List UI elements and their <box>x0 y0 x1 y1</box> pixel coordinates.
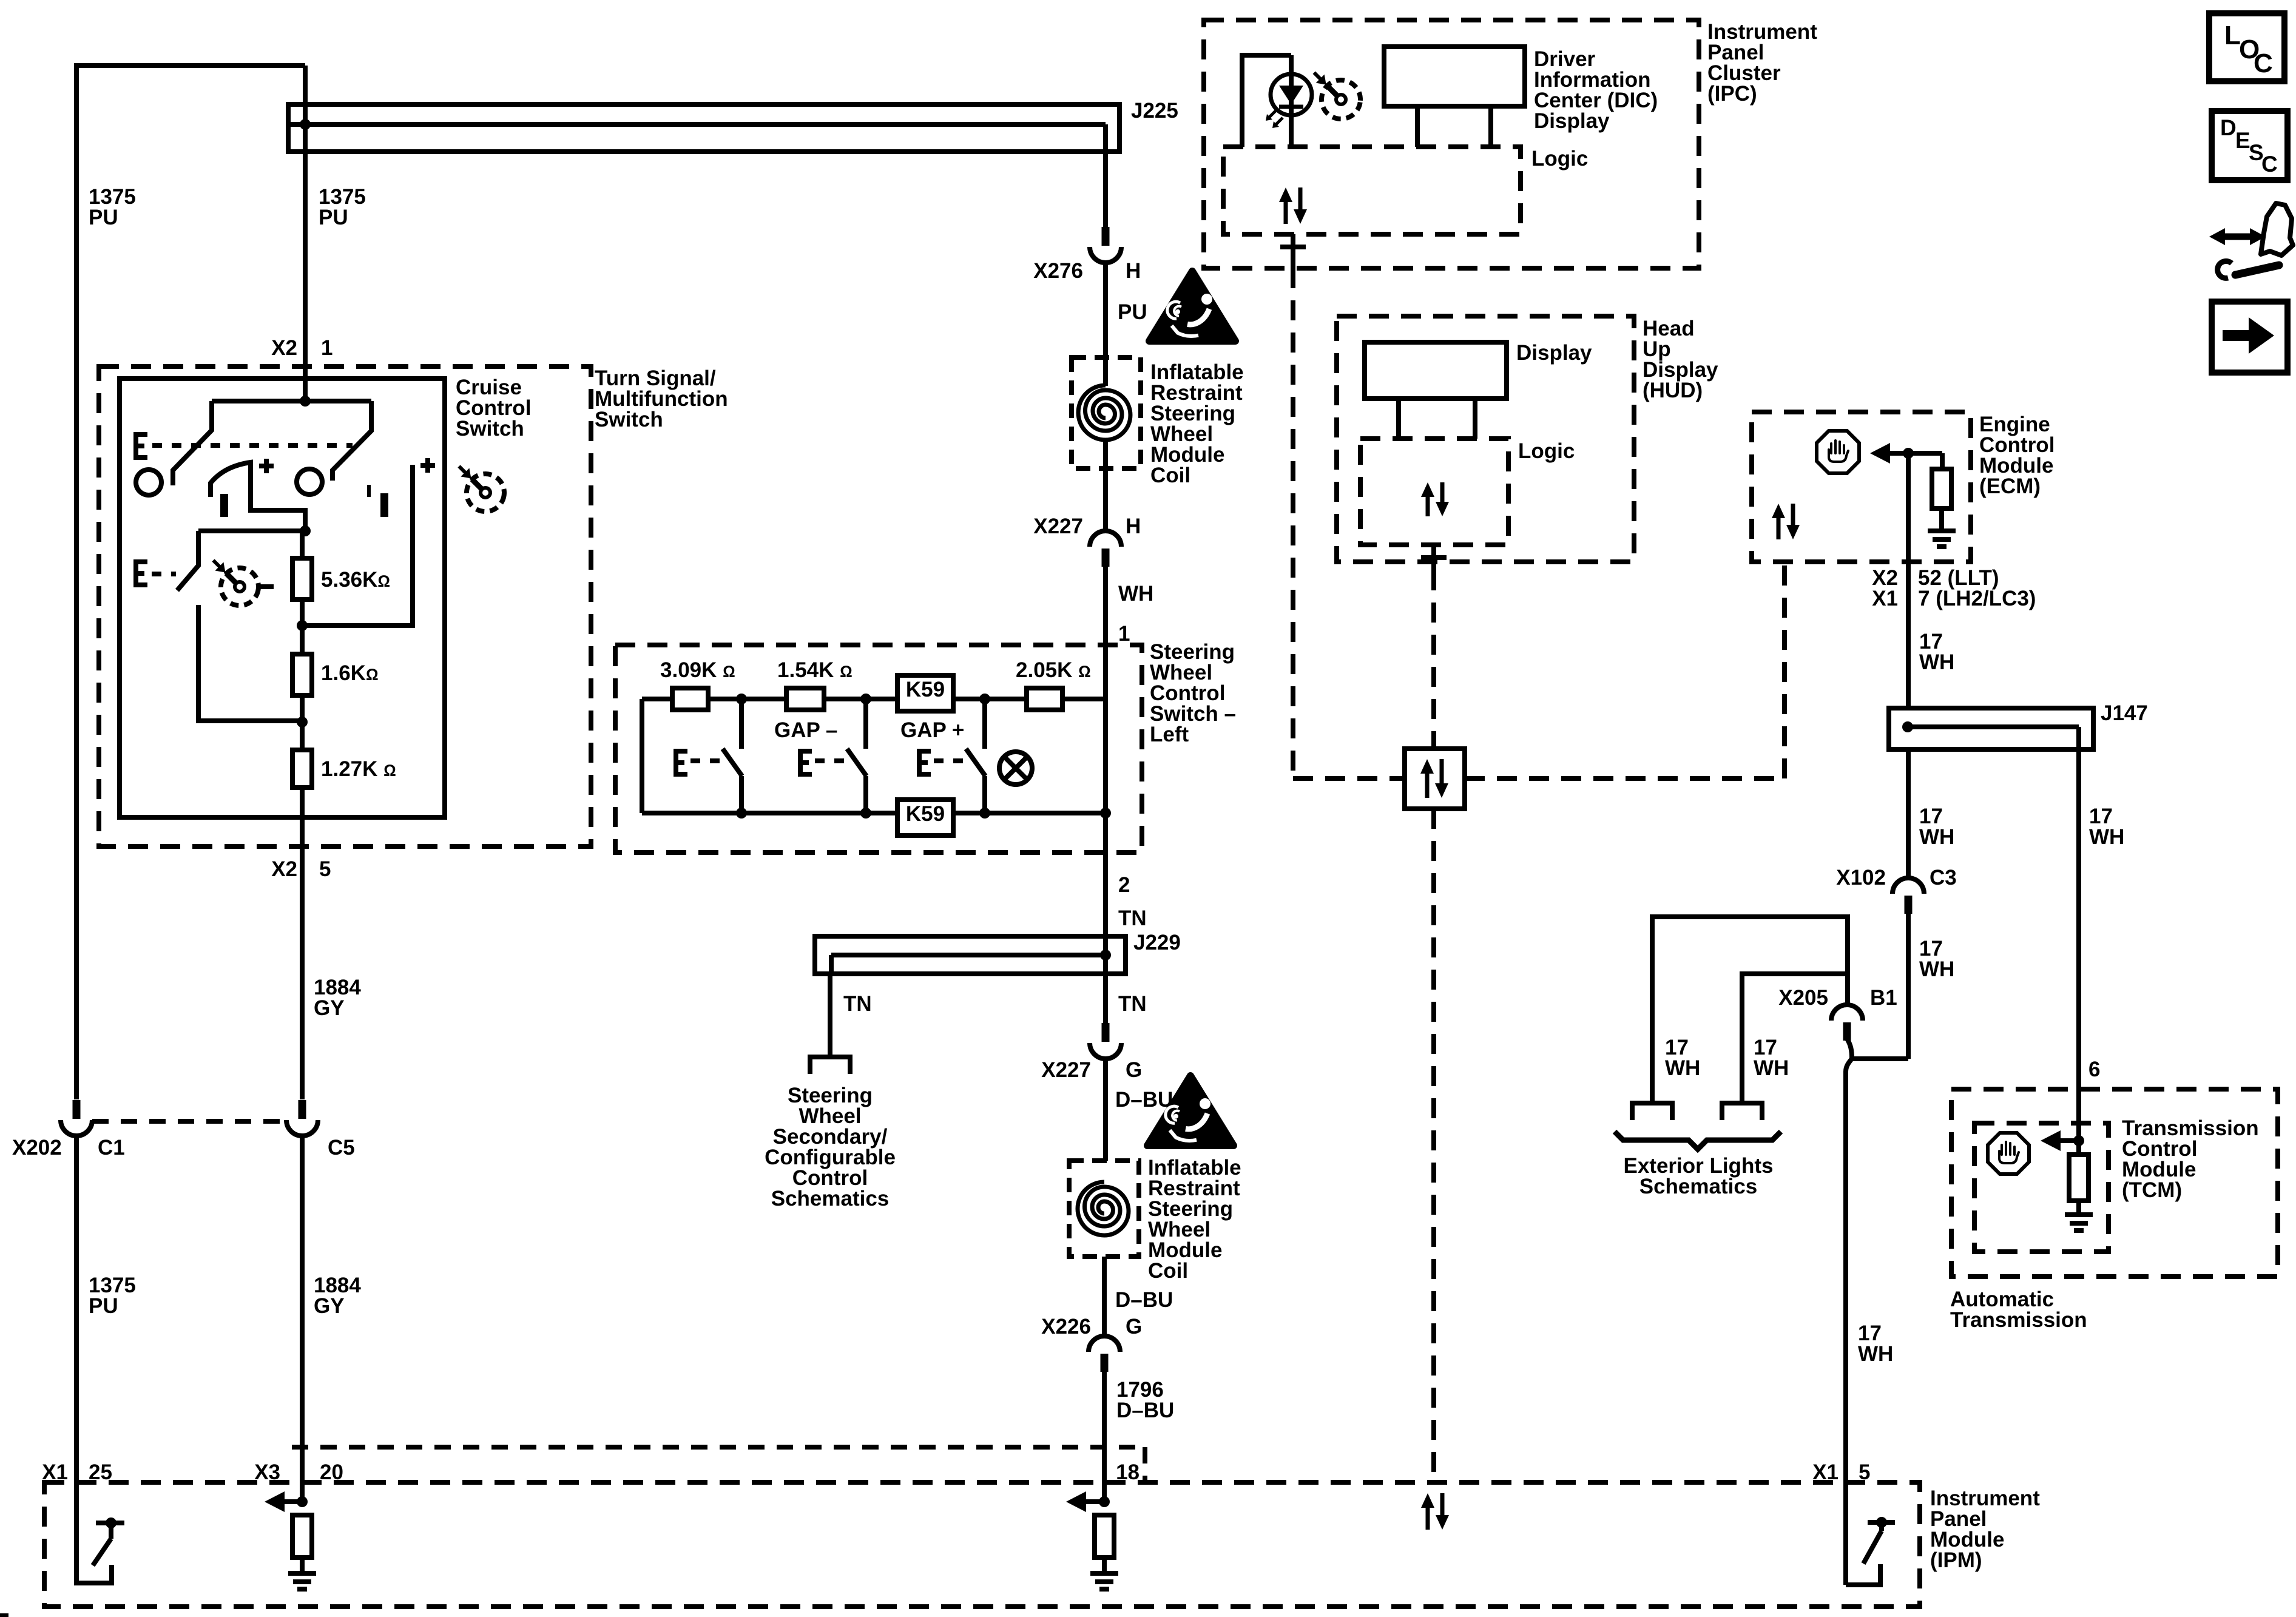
svg-text:TN: TN <box>1118 992 1147 1016</box>
row wire <box>824 697 897 701</box>
label Logic (HUD) <box>1518 439 1575 463</box>
label J225 <box>1131 99 1178 123</box>
svg-text:Left: Left <box>1150 723 1189 746</box>
TCM pull-down resistor <box>2069 1141 2088 1215</box>
label 20 <box>320 1460 343 1484</box>
swcs switch 2 E dashes <box>815 758 844 763</box>
label 1884 GY (upper) <box>314 976 361 1020</box>
svg-text:WH: WH <box>1118 582 1153 606</box>
icon LOC box <box>2209 13 2284 81</box>
label GAP + <box>900 718 964 742</box>
wire D-BU <box>1103 1059 1108 1161</box>
cruise right switch contact circle <box>297 469 322 495</box>
svg-text:1: 1 <box>321 336 333 360</box>
wire to exterior lights 1 <box>1652 917 1848 1103</box>
dashed box TCM <box>1974 1123 2109 1252</box>
label Inflatable Restraint Steering Wheel Module Coil (lower) <box>1148 1156 1241 1283</box>
dashed box automatic transmission <box>1951 1089 2278 1277</box>
label G <box>1126 1058 1142 1082</box>
cruise tick bar (left) <box>220 494 228 517</box>
junction dot TCM <box>2073 1135 2084 1146</box>
svg-text:D: D <box>2220 115 2237 140</box>
label X1 (25) <box>42 1460 68 1484</box>
cruise left switch (on/off) blade <box>173 401 212 485</box>
junction dots bottom <box>736 808 1111 819</box>
svg-text:J147: J147 <box>2101 701 2148 725</box>
swcs switch 2 <box>847 699 866 813</box>
svg-text:X102: X102 <box>1836 866 1886 890</box>
svg-text:J225: J225 <box>1131 99 1178 123</box>
wire 17 WH from ECM <box>1906 453 1911 707</box>
label 17 WH (ext 2) <box>1754 1036 1789 1080</box>
serial data dashed line from IPC <box>1291 268 1295 778</box>
wire X2-1 vertical into cruise switch <box>303 66 308 401</box>
label X227 <box>1033 515 1083 538</box>
IPM resistor (1796) <box>1095 1515 1114 1573</box>
IPM resistor (1884 GY) <box>292 1515 312 1573</box>
dashed box instrument panel module <box>44 1482 1920 1607</box>
svg-text:C: C <box>2261 152 2278 177</box>
resistor 3.09K <box>672 688 708 710</box>
cruise switch E symbol (upper) <box>136 434 147 457</box>
dashed box IPC logic <box>1223 147 1521 234</box>
label Transmission Control Module (TCM) <box>2122 1116 2259 1202</box>
cruise bottom internal wire <box>198 528 305 533</box>
junction dot IPM switch left <box>106 1517 116 1528</box>
label 17 WH (right branch) <box>2089 805 2124 849</box>
label TN (left leg) <box>843 992 872 1016</box>
label C3 <box>1930 866 1957 890</box>
label Cruise Control Switch <box>456 376 531 441</box>
swcs switch 3 E dashes <box>934 758 963 763</box>
HUD serial stub <box>1421 545 1447 570</box>
svg-text:X227: X227 <box>1041 1058 1091 1082</box>
page edge mark <box>0 1613 8 1617</box>
svg-text:GY: GY <box>314 1294 345 1318</box>
svg-text:X276: X276 <box>1033 259 1083 283</box>
resistor 2.05K <box>1027 688 1062 710</box>
junction dot row 3 <box>979 694 990 704</box>
lamp symbol <box>999 752 1032 785</box>
relay box K59 (top) <box>897 675 953 711</box>
svg-text:(IPM): (IPM) <box>1930 1548 1982 1572</box>
label 17 WH (to IPM) <box>1858 1322 1893 1366</box>
junction dot J229 <box>1100 950 1111 960</box>
label Inflatable Restraint Steering Wheel Module Coil (upper) <box>1150 360 1244 487</box>
swcs bottom wire right <box>953 811 1106 815</box>
label X202 <box>12 1136 62 1160</box>
wire label 1375 PU (top left) <box>89 185 136 229</box>
label J147 <box>2101 701 2148 725</box>
label D-BU (lower) <box>1115 1288 1173 1312</box>
wire PU to X227 <box>1103 440 1108 531</box>
svg-text:X1: X1 <box>1872 587 1898 610</box>
connector X102 C3 <box>1893 878 1924 914</box>
svg-text:Transmission: Transmission <box>1950 1308 2087 1332</box>
svg-text:X205: X205 <box>1778 986 1828 1010</box>
connector X202 C5 <box>286 1100 318 1136</box>
swcs switch 1 <box>723 699 742 813</box>
cruise switch E dashed line (upper) <box>152 443 353 448</box>
junction dot below 5.36K <box>297 620 308 631</box>
label 17 WH (ext 1) <box>1665 1036 1700 1080</box>
ECM pull-up resistor <box>1932 453 1951 531</box>
svg-text:X226: X226 <box>1041 1315 1091 1338</box>
svg-text:WH: WH <box>1858 1342 1893 1366</box>
swcs output wire right side <box>1103 699 1108 955</box>
connector X205 B1 <box>1831 1005 1863 1041</box>
wire 1884 GY to IPM <box>300 1136 305 1502</box>
label Driver Information Center (DIC) Display <box>1534 47 1658 133</box>
label 17 WH (left branch) <box>1919 805 1954 849</box>
svg-text:WH: WH <box>1919 957 1954 981</box>
dashed box steering wheel control switch - left <box>615 645 1142 852</box>
cruise tick marks (right) <box>367 485 388 517</box>
svg-text:GAP +: GAP + <box>900 718 964 742</box>
svg-text:PU: PU <box>1118 300 1147 324</box>
arrow (1796 D-BU input) <box>1066 1491 1104 1512</box>
label B1 <box>1870 986 1897 1010</box>
IPC serial stub <box>1280 234 1306 268</box>
swcs switch 1 E dashes <box>690 758 720 763</box>
label 1884 GY (lower) <box>314 1274 361 1318</box>
label G (X226) <box>1126 1315 1142 1338</box>
label Exterior Lights Schematics <box>1624 1154 1774 1198</box>
svg-text:PU: PU <box>319 206 348 229</box>
label Head Up Display (HUD) <box>1643 317 1718 402</box>
row wire to right <box>1062 697 1106 701</box>
svg-text:Display: Display <box>1516 341 1592 365</box>
wire label 1375 PU (lower left) <box>89 1274 136 1318</box>
dashed box engine control module <box>1752 412 1971 562</box>
label 5 (pin IPM) <box>1859 1460 1870 1484</box>
cruise switch E symbol (lower) <box>136 562 147 585</box>
swcs switch 2 E <box>800 751 812 774</box>
serial data arrows (ECM) <box>1772 504 1800 539</box>
svg-text:7 (LH2/LC3): 7 (LH2/LC3) <box>1918 587 2036 610</box>
svg-text:WH: WH <box>1665 1056 1700 1080</box>
solid box cruise control switch <box>120 379 445 817</box>
IPM switch (left) <box>93 1523 124 1583</box>
label X205 <box>1778 986 1828 1010</box>
svg-text:C: C <box>2254 49 2273 78</box>
cruise switch E dashed line (lower) <box>152 572 176 576</box>
label 18 <box>1116 1460 1140 1484</box>
label Automatic Transmission <box>1950 1288 2087 1332</box>
swcs bottom wire <box>642 811 897 815</box>
icon double arrow + wrench <box>2209 203 2293 278</box>
junction dot cruise mid <box>300 525 311 536</box>
ground (TCM) <box>2065 1215 2093 1230</box>
junction dot 1796 <box>1099 1496 1110 1507</box>
svg-text:X2: X2 <box>271 857 297 881</box>
label C5 <box>328 1136 355 1160</box>
svg-text:B1: B1 <box>1870 986 1897 1010</box>
serial dashed node to IPM <box>1431 809 1436 1482</box>
svg-text:Switch: Switch <box>595 408 663 431</box>
connector X276 H <box>1090 227 1121 263</box>
cruise left switch contact circle <box>136 470 161 495</box>
label 2 (pin) <box>1118 873 1130 897</box>
label 6 (pin) <box>2088 1058 2100 1081</box>
junction dot on J225 at X2-1 wire <box>300 119 311 130</box>
IPM switch (right) <box>1846 1482 1895 1585</box>
cruise indicator LED <box>1266 55 1312 147</box>
svg-text:Schematics: Schematics <box>1639 1175 1758 1198</box>
svg-text:K59: K59 <box>906 678 945 701</box>
svg-text:Switch: Switch <box>456 417 524 441</box>
label X1 / 7 (LH2/LC3) <box>1872 587 2036 610</box>
X205 jog to X102 wire <box>1846 1039 1908 1072</box>
svg-text:(HUD): (HUD) <box>1643 379 1703 402</box>
label X2 (bottom) <box>271 857 297 881</box>
connector X227 G <box>1090 1023 1121 1059</box>
splice J225 bus bar <box>288 104 1119 228</box>
swcs switch 1 E <box>676 751 687 774</box>
swcs switch 3 <box>966 699 985 813</box>
dashed box inflatable restraint coil (upper) <box>1072 357 1141 468</box>
label GAP - <box>774 718 837 742</box>
wire between 5.36K and 1.6K <box>300 599 305 654</box>
junction dot IPM switch right <box>1876 1517 1887 1528</box>
swcs resistor row left segment <box>642 697 672 701</box>
wire 1884 GY cruise out <box>300 788 305 1099</box>
dashed box instrument panel cluster <box>1204 20 1699 268</box>
HUD display symbol <box>1365 342 1507 439</box>
junction dot 1884 GY <box>297 1496 308 1507</box>
connector X202 C1 <box>61 1100 92 1136</box>
arrow into octagon (ECM) <box>1870 443 1942 464</box>
svg-text:E: E <box>2235 128 2250 153</box>
svg-text:D–BU: D–BU <box>1115 1288 1173 1312</box>
svg-text:5: 5 <box>1859 1460 1870 1484</box>
cruise minus sign <box>259 584 274 589</box>
label Steering Wheel Control Switch - Left <box>1150 640 1236 746</box>
svg-text:C3: C3 <box>1930 866 1957 890</box>
svg-text:L: L <box>2224 21 2241 50</box>
svg-text:C5: C5 <box>328 1136 355 1160</box>
wire to exterior lights 2 <box>1742 974 1847 1103</box>
label Display <box>1516 341 1592 365</box>
cruise set- switch blade <box>177 531 198 590</box>
label Steering Wheel Secondary/ Configurable Control Schematics <box>765 1084 896 1210</box>
SRS caution triangle (lower) <box>1147 1076 1234 1146</box>
cruise set ramp curve <box>211 462 305 531</box>
svg-text:TN: TN <box>843 992 872 1016</box>
wire 17 WH to IPM X1-5 <box>1843 1072 1848 1482</box>
wire WH into steering wheel control switch <box>1103 565 1108 699</box>
cruise plus sign (set/accel left) <box>259 459 274 473</box>
svg-text:C1: C1 <box>98 1136 125 1160</box>
wire PU below X276 <box>1103 263 1108 386</box>
svg-text:X1: X1 <box>1812 1460 1838 1484</box>
label 5.36K ohm <box>321 568 390 592</box>
wire 1796 D-BU <box>1102 1372 1107 1502</box>
svg-text:Logic: Logic <box>1518 439 1575 463</box>
connector X226 G <box>1089 1336 1120 1372</box>
svg-text:PU: PU <box>89 206 118 229</box>
clockspring coil (upper) <box>1078 385 1130 440</box>
junction dot row 1 <box>736 694 747 704</box>
label PU <box>1118 300 1147 324</box>
label 2.05K ohm <box>1016 658 1091 682</box>
wire label 1375 PU (mid) <box>319 185 366 229</box>
svg-text:G: G <box>1126 1058 1142 1082</box>
wire TN below J229 <box>1103 955 1108 1024</box>
fork exterior lights 1 <box>1632 1103 1672 1120</box>
label X1 (5) <box>1812 1460 1838 1484</box>
svg-text:WH: WH <box>1919 825 1954 849</box>
label C1 <box>98 1136 125 1160</box>
wire resistor chain a <box>300 531 305 558</box>
ground (IPM 1796) <box>1090 1573 1118 1589</box>
arrow into octagon (TCM) <box>2041 1130 2079 1151</box>
label X2 / 52 (LLT) <box>1872 566 1999 590</box>
label H <box>1126 259 1141 283</box>
wire 1375 PU from J225 to X202 C1 (left vertical) <box>76 66 305 1583</box>
svg-text:WH: WH <box>1919 650 1954 674</box>
icon right arrow box <box>2212 302 2288 373</box>
svg-text:GY: GY <box>314 996 345 1020</box>
svg-text:WH: WH <box>2089 825 2124 849</box>
label 17 WH (below X102) <box>1919 937 1954 981</box>
cruise internal top wire <box>212 399 371 403</box>
svg-text:X202: X202 <box>12 1136 62 1160</box>
serial data arrows (IPC) <box>1279 187 1307 224</box>
row wire <box>953 697 1027 701</box>
label J229 <box>1133 931 1181 954</box>
label 17 WH (ECM) <box>1919 630 1954 674</box>
label D-BU (upper) <box>1115 1088 1173 1112</box>
label X2 (top) <box>271 336 297 360</box>
swcs ladder left leg <box>640 699 644 813</box>
label Engine Control Module (ECM) <box>1979 413 2055 498</box>
svg-text:(IPC): (IPC) <box>1707 82 1757 106</box>
svg-text:Schematics: Schematics <box>771 1187 890 1210</box>
svg-text:G: G <box>1126 1315 1142 1338</box>
junction dot row 2 <box>860 694 871 704</box>
svg-text:D–BU: D–BU <box>1116 1399 1174 1422</box>
icon DESC box <box>2212 111 2288 180</box>
svg-text:Logic: Logic <box>1531 147 1588 170</box>
dashed box inflatable restraint coil (lower) <box>1069 1161 1139 1257</box>
label 3.09K ohm <box>660 658 735 682</box>
svg-text:Display: Display <box>1534 109 1610 133</box>
label Logic (IPC) <box>1531 147 1588 170</box>
SRS caution triangle (upper) <box>1149 271 1235 341</box>
label X226 <box>1041 1315 1091 1338</box>
serial data node box <box>1405 749 1465 809</box>
label 1796 D-BU <box>1116 1378 1174 1422</box>
cruise set- contact post <box>198 605 302 721</box>
cruise gauge icon (set-) <box>213 560 261 608</box>
svg-text:X227: X227 <box>1033 515 1083 538</box>
wire 17 WH below X102 <box>1906 912 1911 1059</box>
label 1.6K ohm <box>321 661 379 685</box>
splice J229 bus bar <box>815 936 1126 974</box>
serial data arrows (HUD) <box>1421 482 1449 516</box>
svg-text:J229: J229 <box>1133 931 1181 954</box>
wire between 1.6K and 1.27K <box>300 695 305 750</box>
ground (ECM) <box>1928 531 1956 547</box>
svg-text:D–BU: D–BU <box>1115 1088 1173 1112</box>
label TN (right) <box>1118 992 1147 1016</box>
label X227 (G) <box>1041 1058 1091 1082</box>
hand octagon (ECM) <box>1817 431 1859 473</box>
cruise resume branch <box>302 465 413 626</box>
fork exterior lights 2 <box>1722 1103 1762 1120</box>
label 1 (pin) <box>1118 622 1130 646</box>
resistor 1.54K <box>786 688 824 710</box>
ground (IPM 1884) <box>288 1573 316 1589</box>
dashed box head up display <box>1337 316 1634 562</box>
label WH <box>1118 582 1153 606</box>
svg-text:WH: WH <box>1754 1056 1789 1080</box>
gauge icon (IPC) <box>1314 73 1363 121</box>
junction dot X2-1 at cruise switch <box>300 396 311 407</box>
serial data arrows (node) <box>1420 759 1448 798</box>
J229 left leg TN <box>828 974 832 1057</box>
resistor 5.36K <box>292 558 312 599</box>
junction dot J147 <box>1902 721 1913 732</box>
svg-text:(TCM): (TCM) <box>2122 1178 2182 1202</box>
row wire <box>708 697 786 701</box>
resistor 1.27K <box>292 750 312 788</box>
dotted connector line X202 <box>92 1119 286 1124</box>
label H <box>1126 515 1141 538</box>
svg-text:X2: X2 <box>271 336 297 360</box>
wire 17 WH left branch <box>1906 749 1911 878</box>
label 1.54K ohm <box>777 658 853 682</box>
label 1.27K ohm <box>321 757 396 781</box>
cruise indicator housing <box>1242 55 1291 147</box>
relay box K59 (bottom) <box>897 800 953 836</box>
svg-text:5: 5 <box>319 857 331 881</box>
connector X227 H <box>1090 531 1121 567</box>
wire 17 WH right branch <box>2076 749 2081 1141</box>
label Instrument Panel Module (IPM) <box>1930 1487 2040 1572</box>
svg-text:TN: TN <box>1118 906 1147 930</box>
label TN (above J229) <box>1118 906 1147 930</box>
resistor 1.6K <box>292 654 312 695</box>
label X276 <box>1033 259 1083 283</box>
svg-text:K59: K59 <box>906 802 945 826</box>
splice J147 bus bar <box>1889 708 2093 749</box>
swcs switch 3 E <box>919 751 931 774</box>
label Instrument Panel Cluster (IPC) <box>1707 20 1817 106</box>
cruise plus sign (resume right) <box>420 458 435 473</box>
label X102 <box>1836 866 1886 890</box>
dashed box turn signal/multifunction switch <box>99 366 591 846</box>
svg-text:(ECM): (ECM) <box>1979 474 2041 498</box>
clockspring coil (lower) <box>1078 1182 1129 1235</box>
serial dashed node to ECM <box>1465 562 1784 778</box>
serial dashed from HUD to node <box>1431 570 1436 749</box>
svg-text:H: H <box>1126 515 1141 538</box>
label 1 (pin) <box>321 336 333 360</box>
serial data dashed line to node box <box>1293 776 1405 781</box>
wire D-BU to X226 <box>1102 1257 1107 1336</box>
svg-text:6: 6 <box>2088 1058 2100 1081</box>
dotted connector line X3 <box>292 1447 1145 1482</box>
junction dot ECM <box>1903 448 1914 459</box>
cruise gauge icon (top right) <box>459 466 507 514</box>
brace exterior lights <box>1615 1132 1781 1149</box>
label 5 (pin) <box>319 857 331 881</box>
dashed box HUD logic <box>1360 439 1508 545</box>
arrow (1884 GY input) <box>265 1491 302 1512</box>
label X3 <box>254 1460 280 1484</box>
